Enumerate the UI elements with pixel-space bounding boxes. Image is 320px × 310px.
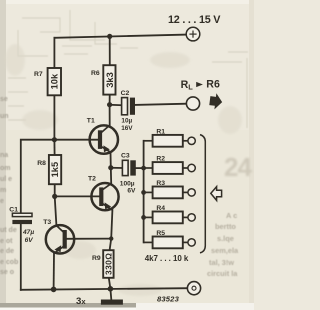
svg-text:e de: e de [0,248,14,255]
transistor T1 [87,118,118,154]
wire: C1 bottom lead [20,224,22,290]
wire: T2 base [55,195,100,197]
svg-text:ul e: ul e [0,176,12,183]
junction C3/ladder [141,166,146,171]
svg-text:R1: R1 [156,128,165,135]
terminal +12V [186,27,200,41]
svg-text:sem,ela: sem,ela [211,246,239,255]
svg-text:1k5: 1k5 [50,162,60,178]
wire: ground stub [109,289,112,300]
wire: T2 collector riser to node A [110,168,112,184]
junction ladder R3 [141,190,146,195]
wire: T1 collector riser [109,105,111,125]
svg-text:10µ: 10µ [121,118,132,125]
wire: T3 base [67,238,111,240]
svg-text:T1: T1 [87,118,95,125]
resistor R3 [144,180,196,198]
svg-text:L: L [188,83,193,92]
svg-text:T3: T3 [43,219,51,226]
wire: node A to C3 [111,167,123,169]
svg-text:16V: 16V [121,125,133,132]
svg-text:R9: R9 [92,255,101,262]
capacitor C2 [121,90,135,132]
resistor R6 [91,65,116,94]
junction node N1 [107,102,112,107]
resistor R8 [37,155,61,184]
svg-text:R3: R3 [156,180,165,187]
resistor R7 [34,68,61,95]
svg-text:R4: R4 [156,205,165,212]
wire: R7 top lead [53,38,55,68]
wire: R8 bottom lead [54,184,56,196]
svg-text:A c: A c [226,211,237,220]
svg-text:C2: C2 [121,90,130,97]
svg-text:un: un [0,113,9,120]
svg-text:R8: R8 [37,160,46,167]
svg-text:3x: 3x [76,296,86,307]
svg-text:e: e [0,198,4,205]
resistor R1 [144,128,196,146]
wire: C2 to output terminal [135,104,187,105]
wire: T1 emitter to node A [110,152,112,168]
wire: R8 top lead [53,140,55,155]
svg-text:R5: R5 [156,230,165,237]
svg-text:T2: T2 [88,175,96,182]
capacitor C3 [120,152,136,194]
wire: top supply rail [54,35,186,38]
wire: node N1 to C2 [110,104,122,106]
label RL > R6 [181,79,220,92]
svg-text:se: se [0,96,8,103]
svg-text:tal, 3!w: tal, 3!w [209,258,234,267]
wire: C3 to ladder rail [136,167,144,169]
resistor R2 [144,156,196,174]
junction rail/T3 emitter [51,287,57,293]
svg-text:6V: 6V [25,237,34,244]
resistor R9 [92,250,114,278]
junction node E2 (T3 base) [109,236,113,240]
transistor T3 (mirrored) [43,219,74,254]
wire: bottom 0V rail [21,288,188,290]
junction ladder R4 [141,215,146,220]
svg-text:R7: R7 [34,71,43,78]
selector arrow (outline, pointing left) [211,187,222,201]
svg-text:3k3: 3k3 [105,72,115,88]
wire: T1 base [54,139,98,141]
svg-text:24: 24 [224,152,253,182]
transistor T2 [88,175,119,210]
terminal output RL [186,97,199,110]
capacitor C1 [9,206,34,244]
svg-text:e ot: e ot [0,238,13,245]
junction node B1 (T1 base) [52,137,57,142]
wire: base node left to C1 [21,140,55,214]
wire: R6 top lead [109,36,111,64]
wire: R9 top lead [110,239,112,251]
svg-text:47µ: 47µ [22,229,34,236]
wire: T3 emitter down to rail [53,253,55,289]
wire: ladder left rail [143,141,145,243]
svg-text:e cob: e cob [0,259,18,266]
ground [101,300,123,305]
wire: R6 bottom lead to node N1 [109,96,111,105]
svg-text:6V: 6V [127,188,136,195]
svg-text:C1: C1 [9,206,18,213]
svg-text:C3: C3 [121,152,130,159]
output arrow (solid) [209,93,223,111]
resistor R4 [144,205,196,223]
svg-text:R6: R6 [206,79,220,91]
selector bracket [200,135,205,253]
junction node B2 (T2 base) [52,194,57,199]
svg-text:83523: 83523 [157,295,180,304]
resistor R5 [144,230,196,248]
junction rail/R9/ground [108,286,114,292]
svg-text:se o: se o [0,269,14,276]
wire: T2 emitter down to node E2 [111,210,112,239]
svg-text:R2: R2 [156,156,165,163]
svg-text:10k: 10k [50,73,60,89]
wire: R9 bottom lead [109,278,111,289]
svg-text:330Ω: 330Ω [103,253,113,275]
svg-text:12 . . . 15 V: 12 . . . 15 V [168,14,221,26]
svg-text:R6: R6 [91,70,100,77]
wire: R7 bottom to base node [53,95,55,139]
svg-text:s.lqe: s.lqe [217,234,234,243]
svg-text:100µ: 100µ [120,181,135,188]
svg-text:om: om [0,165,11,172]
terminal 0V [187,282,200,295]
wire: node B2 down to T3 collector [55,196,57,225]
svg-text:4k7 . . . 10 k: 4k7 . . . 10 k [145,254,189,263]
svg-text:bertto: bertto [215,222,236,231]
svg-text:circuit la: circuit la [207,269,238,278]
svg-text:m: m [0,187,6,194]
junction N0 (rail/R6) [107,34,112,39]
junction node A [108,165,113,170]
svg-text:na: na [0,152,8,159]
svg-text:ut de: ut de [0,227,17,234]
